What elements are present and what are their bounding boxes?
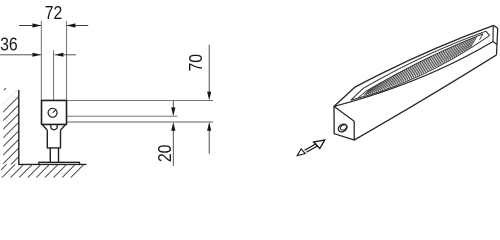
recess rim left edge [351,89,363,101]
end cap right edge [353,121,355,140]
pivot circle [48,108,57,117]
rail top-back edge with left steep edge [334,25,494,106]
grille slats [364,36,477,95]
end cap bottom edge [334,134,354,140]
top reference line [67,99,213,101]
recess right wall corner [480,34,484,40]
center axis line [53,50,55,108]
floor line [18,163,86,165]
hole inner arc [339,124,347,131]
hole ellipse [337,123,349,134]
rail top-front edge [334,42,493,107]
extension line left [40,21,42,100]
arm top line [57,115,178,117]
foot plate [39,162,80,164]
svg-text:36: 36 [0,34,18,55]
rail bottom front edge [354,55,496,140]
recess left wall corner [358,91,366,98]
bracket lower trapezoid [43,125,66,130]
leg column [47,130,61,148]
wall surface line [18,90,20,164]
pivot tick [53,110,56,113]
svg-text:20: 20 [154,145,175,163]
dimension 20 shaft+arrows [172,101,174,109]
dimension line 72 [19,25,41,27]
svg-text:72: 72 [45,2,63,23]
bracket body [42,100,67,124]
rail body white fill [334,25,498,140]
rail left edge [333,106,335,135]
extension line right [66,21,68,100]
svg-text:70: 70 [185,54,206,72]
end cap top edge [334,106,354,121]
arm bottom reference line [57,121,214,123]
recess rim front edge [351,36,490,101]
rail right short depth edge [493,42,497,45]
pivot nub [51,125,57,130]
rail right inner vertical edge [492,25,494,41]
recess floor back line [366,34,483,92]
dimension 70 shaft+arrows [208,45,210,94]
recess rim right edge [486,31,490,35]
recess rim back edge [363,31,486,88]
direction double-arrow icon [314,140,325,149]
dimension line 36 [0,54,41,56]
rail right end edges [494,25,498,55]
leg stem [50,148,58,162]
